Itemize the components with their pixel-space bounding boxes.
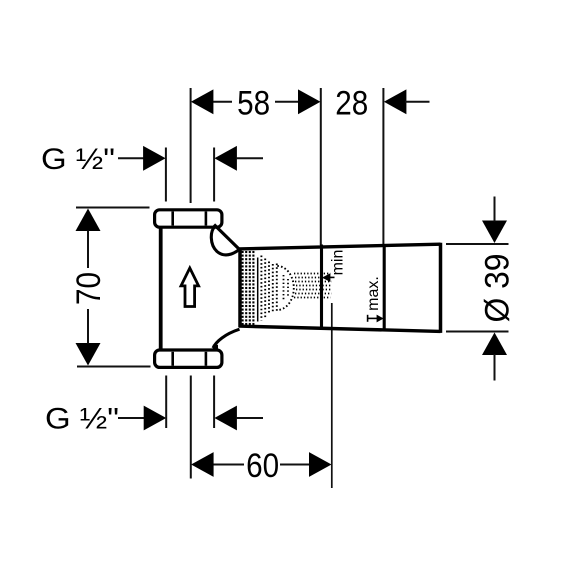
stipple seat circle left edge (276, 264, 278, 313)
wire G1/2 ext line left above nut (165, 148, 167, 202)
wire leader G1/2 bottom (118, 417, 145, 419)
wire 70 ext line top (76, 207, 150, 209)
arrowhead 58 right (298, 89, 321, 114)
stipple funnel col 2 (264, 259, 266, 318)
stipple neck row 2 (295, 277, 332, 279)
svg-text:60: 60 (246, 447, 279, 485)
svg-text:G ½": G ½" (45, 403, 119, 436)
svg-text:58: 58 (237, 84, 270, 122)
valve max line cap left edge (383, 244, 386, 331)
wire 28 arrow tail (405, 101, 430, 103)
stipple funnel (258, 256, 332, 322)
wire extension line max-line up (382, 88, 384, 245)
arrowhead max pointing right (377, 315, 384, 323)
nut bottom facet line right (205, 352, 208, 366)
stipple neck row 6 (295, 293, 332, 295)
valve transition fillet arc top (211, 227, 239, 255)
valve body bottom edge (239, 326, 441, 331)
svg-text:70: 70 (70, 272, 108, 305)
wire extension line min-line up (320, 88, 322, 245)
valve transition fillet bottom (213, 329, 240, 348)
valve pipe left edge (159, 227, 163, 351)
wire G1/2 top arrow tail (237, 157, 263, 159)
wire dia arrow tail bottom (494, 354, 496, 381)
stipple neck row 5 (296, 289, 332, 291)
arrowhead G1/2 bottom pointing left (214, 406, 237, 431)
wire G1/2 ext line left below nut (165, 376, 167, 429)
stipple neck row 3 (295, 281, 332, 283)
arrowhead G1/2 top pointing left (214, 146, 237, 171)
valve body top edge (239, 244, 441, 249)
wire centerline pipe axis top (190, 88, 192, 203)
wire leader G1/2 top (118, 157, 145, 159)
valve body hex nut top (155, 210, 222, 227)
arrowhead 60 left (191, 452, 214, 477)
wire G1/2 ext line right above nut (213, 148, 215, 202)
dimension 60 line left segment (214, 464, 245, 466)
stipple neck row 7 (294, 297, 331, 299)
flow direction arrow (181, 268, 199, 307)
svg-text:Ø 39: Ø 39 (479, 254, 517, 323)
valve body hex nut bottom (155, 350, 222, 367)
stipple seat inner col 2 (287, 279, 289, 297)
nut top facet line right (205, 212, 208, 226)
stipple solid thin line (257, 258, 259, 322)
arrowhead 58 left (191, 89, 214, 114)
valve transition diagonal top (214, 225, 240, 250)
wire 70 ext line bottom (77, 366, 151, 368)
nut top facet line left (171, 212, 174, 226)
arrowhead min pointing left (322, 273, 331, 282)
wire centerline pipe axis bottom (190, 376, 192, 479)
stipple dense band pattern (242, 251, 255, 325)
wire 70 dim line lower (87, 309, 89, 344)
nut bottom facet line left (171, 352, 174, 366)
arrowhead G1/2 top pointing right (143, 146, 166, 171)
svg-text:max.: max. (365, 276, 382, 311)
arrowhead dia top down (482, 221, 507, 244)
svg-text:G ½": G ½" (41, 143, 115, 176)
dimension 58 line right segment (275, 101, 299, 103)
arrowhead 28 right outside (384, 89, 407, 114)
valve cone left edge (238, 248, 242, 327)
stipple seat inner col 1 (283, 275, 285, 301)
wire dia arrow tail top (494, 197, 496, 222)
stipple seat circle arc (277, 266, 294, 310)
stipple neck row 1 (294, 273, 331, 275)
wire leader spindle end down to 60 dim (331, 303, 333, 488)
wire G1/2 bottom arrow tail (237, 417, 263, 419)
svg-text:min: min (330, 250, 347, 276)
wire diameter ext line top (446, 243, 509, 245)
arrowhead 70 top up (76, 209, 101, 232)
stipple funnel col 4 (272, 264, 274, 312)
leader min (330, 276, 335, 278)
valve body notch bottom (213, 345, 218, 351)
stipple funnel col 1 (260, 256, 262, 321)
leader max tick (367, 315, 369, 322)
arrowhead G1/2 bottom pointing right (144, 406, 167, 431)
dimension 58 line left segment (213, 101, 232, 103)
valve min line (320, 245, 323, 330)
dimension 60 line right segment (280, 464, 310, 466)
arrowhead 60 right (309, 452, 332, 477)
arrowhead 70 bottom down (76, 343, 101, 366)
leader max (368, 317, 377, 319)
stipple neck row 4 (296, 285, 332, 287)
valve cap right edge (439, 243, 443, 333)
wire 70 dim line upper (87, 231, 89, 269)
stipple funnel col 3 (268, 262, 270, 315)
wire G1/2 ext line right below nut (213, 376, 215, 429)
arrowhead dia bottom up (482, 333, 507, 356)
wire diameter ext line bottom (446, 331, 509, 333)
svg-text:28: 28 (335, 84, 368, 122)
